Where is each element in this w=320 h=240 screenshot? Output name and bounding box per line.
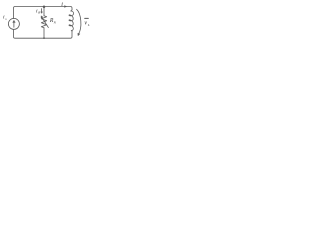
node B junction dot — [43, 37, 45, 39]
current arrowhead on top wire — [64, 5, 67, 7]
svg-text:i: i — [61, 2, 63, 8]
wire top — [14, 7, 73, 19]
label v_L overbar — [85, 17, 89, 19]
wire bottom-left — [14, 29, 73, 38]
svg-text:N: N — [53, 21, 57, 25]
resistor R (variable) — [41, 16, 48, 28]
svg-text:L: L — [87, 23, 90, 27]
wire middle branch bottom — [43, 28, 45, 38]
voltage arrow arc — [77, 9, 81, 34]
inductor L — [69, 10, 74, 32]
svg-text:s: s — [5, 17, 7, 21]
svg-text:R: R — [37, 11, 40, 15]
wire middle branch top — [43, 7, 45, 16]
node A junction dot — [43, 6, 46, 9]
current source I1 — [8, 18, 19, 29]
current arrow i_R — [41, 9, 43, 14]
